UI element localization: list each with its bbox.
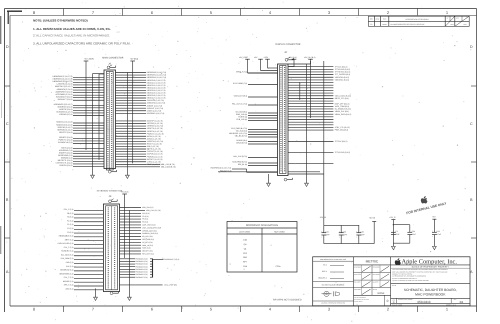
- wire J3 left pin row 9 net SHFT: [65, 238, 104, 241]
- svg-text:F5 (5,6): F5 (5,6): [142, 218, 148, 221]
- wire J4 right pin row 20 net SERRXD: [116, 125, 164, 128]
- svg-text:VIDPWR (2,3,4): VIDPWR (2,3,4): [59, 113, 73, 116]
- svg-text:APPLE SPEC: APPLE SPEC: [354, 301, 362, 303]
- wire J2 right pin row 13 net BRITE_CTL: [288, 97, 349, 100]
- svg-text:QA APPR: QA APPR: [373, 282, 379, 284]
- svg-text:SERCTS (2,4,5,7,8): SERCTS (2,4,5,7,8): [147, 127, 163, 130]
- svg-text:SERCTS (2,4,5): SERCTS (2,4,5): [59, 131, 73, 134]
- connector J2 bottom polarity symbol: [284, 178, 292, 181]
- bus PWDBAD(0-7) vertical: [153, 258, 180, 278]
- svg-text:MODRING (2,4,5,7,8): MODRING (2,4,5,7,8): [147, 112, 165, 115]
- wire J4 right pin row 33 net BATDET: [116, 158, 163, 161]
- capacitor C44: [407, 230, 416, 236]
- svg-text:REL APPR: REL APPR: [354, 282, 360, 284]
- wire J4 left pin row 22 net PWRCYC: [58, 139, 104, 142]
- svg-text:F3 (5,6): F3 (5,6): [67, 231, 74, 234]
- wire J4 left pin row 4 net LANGSEL: [57, 83, 104, 86]
- svg-text:F2 (5,6): F2 (5,6): [67, 227, 74, 230]
- svg-text:NOTE: (UNLESS OTHERWISE NOTED: NOTE: (UNLESS OTHERWISE NOTED): [33, 19, 88, 23]
- svg-text:C: C: [6, 122, 9, 126]
- wire J2 right pin row 8 net LP_CLK: [288, 84, 333, 86]
- svg-text:C32: C32: [325, 230, 328, 233]
- wire J2 right pin row 14 net CNTRST_CTL: [288, 100, 333, 102]
- internal use only stamp: [406, 201, 448, 215]
- wire J4 left pin row 15 net VIDPWR: [59, 113, 104, 116]
- svg-text:BRGHTNSS (5,6): BRGHTNSS (5,6): [60, 272, 74, 275]
- wire J2 left pin row 13 net SOUND: [236, 139, 277, 142]
- svg-text:NOT USED: NOT USED: [274, 230, 285, 233]
- wire J3 right pin row 8 net VCFL_ENSOURTS: [120, 226, 162, 229]
- power rail +5V_BL right above J2: [288, 56, 316, 64]
- svg-text:AND SHALL REMAIN THE PROPERTY: AND SHALL REMAIN THE PROPERTY OF APPLE C…: [392, 271, 447, 273]
- svg-text:KBDROW2 (2,3,4,5,7,8): KBDROW2 (2,3,4,5,7,8): [53, 80, 73, 83]
- svg-text:3. ALL UNPOLARIZED CAPACITORS: 3. ALL UNPOLARIZED CAPACITORS ARE CERAMI…: [33, 41, 131, 45]
- wire J4 left pin row 19 net SERRXD: [57, 128, 104, 131]
- wire J2 right pin row 26 net TFTCLK: [288, 140, 348, 143]
- svg-text:HDDACT (5,8): HDDACT (5,8): [220, 170, 232, 173]
- wire J4 right pin row 21 net SERCTS: [116, 127, 164, 130]
- svg-text:KBDCOL0 (2,3,4,5,7,8): KBDCOL0 (2,3,4,5,7,8): [147, 79, 166, 82]
- svg-text:NUM_LK (5,6): NUM_LK (5,6): [142, 244, 153, 247]
- wire J4 right pin row 27 net RESET: [116, 143, 162, 146]
- riser wire right of J2 partial: [310, 61, 312, 118]
- svg-text:P1: P1: [370, 23, 372, 26]
- power rail +5V_DISP above J2: [239, 56, 278, 73]
- svg-text:CLK (5,6): CLK (5,6): [66, 265, 74, 268]
- svg-text:+5V_DISP: +5V_DISP: [239, 56, 249, 59]
- wire J2 right pin row 16 net VADJ_TRIM: [288, 105, 349, 108]
- wire J2 left pin row 6 net PWR_CLB: [236, 113, 278, 116]
- svg-text:PRD APPR: PRD APPR: [354, 289, 361, 291]
- svg-text:SPK_BL (4): SPK_BL (4): [238, 163, 248, 166]
- svg-text:VIDEOOUT (B,4): VIDEOOUT (B,4): [234, 95, 248, 98]
- wire J2 left pin row 12 net VBL_BA: [235, 135, 278, 138]
- wire J3 right pin row 7 net CAPL_ROW: [120, 224, 157, 227]
- wire J4 left pin row 21 net SERRTS: [59, 136, 104, 139]
- notice of proprietary property block: [391, 265, 470, 283]
- wire J4 left pin row 5 net KBDCOL0: [55, 85, 104, 88]
- power node +5V_M right riser: [369, 217, 376, 244]
- wire cap group top rail: [324, 224, 359, 226]
- wire J4 right pin row 17 net MODRING: [116, 112, 165, 115]
- apple logo on stamp: [421, 196, 428, 203]
- wire J2 right pin row 10 net DISPEN: [288, 89, 333, 91]
- wire J4 right pin row 4 net KBDCOL0: [116, 79, 166, 82]
- wire J4 right pin row 9 net KBDCOL5: [116, 92, 166, 95]
- power rail +5V_MAIN left of J4: [84, 58, 95, 150]
- svg-text:F6 (5,6): F6 (5,6): [142, 221, 148, 224]
- svg-text:VDD_LOGIC (B,4,5): VDD_LOGIC (B,4,5): [335, 94, 352, 97]
- wire J3 right net PWDBAD2: [120, 263, 153, 266]
- svg-text:KBDCOL1 (2,3,4,5,7,8): KBDCOL1 (2,3,4,5,7,8): [147, 81, 166, 84]
- riser wire inside J4 left field: [99, 74, 104, 160]
- svg-text:F1 (5,6): F1 (5,6): [67, 223, 74, 226]
- svg-text:DOL_RAW (5,6): DOL_RAW (5,6): [61, 257, 74, 260]
- svg-text:SLPWRCLK (2,4): SLPWRCLK (2,4): [58, 141, 73, 144]
- svg-text:SNDRTN (2,4,5,7,8): SNDRTN (2,4,5,7,8): [147, 140, 164, 143]
- wire J2 right pin row 9 net FLM_FRAME: [288, 87, 333, 89]
- wire J3 left pin row 16 net CLK: [66, 265, 104, 268]
- svg-text:+5V_M: +5V_M: [369, 217, 376, 220]
- svg-text:CLB (5,6): CLB (5,6): [142, 212, 150, 215]
- wire J4 left pin row 30 net CNTRSTCTL: [56, 162, 104, 165]
- svg-text:DRUN (B,7,8): DRUN (B,7,8): [236, 142, 247, 145]
- notes block: [33, 19, 131, 46]
- svg-text:NMIKBD (2,4): NMIKBD (2,4): [61, 157, 73, 160]
- svg-text:PWRON (2,4,5,7,8): PWRON (2,4,5,7,8): [147, 155, 163, 158]
- svg-text:SPKR_F (7,8): SPKR_F (7,8): [236, 71, 247, 74]
- svg-text:PWR_SEQ (B,4): PWR_SEQ (B,4): [335, 129, 349, 132]
- wire J2 bottom net +5V_MAIN feed: [288, 173, 324, 175]
- wire J3 right net PWDBAD4: [120, 268, 153, 271]
- wire J3 left pin row 4 net FC: [67, 219, 103, 222]
- svg-text:PWDBAD2 (5,6): PWDBAD2 (5,6): [135, 263, 148, 266]
- wire J4 left pin row 14 net SCSIDISK: [56, 111, 104, 114]
- svg-text:+12V: +12V: [264, 56, 269, 59]
- svg-text:VADJ_TRIM (B,4): VADJ_TRIM (B,4): [335, 105, 350, 108]
- svg-text:PWRCYC (2,4,5): PWRCYC (2,4,5): [58, 139, 72, 142]
- drawing interpretation cell: [354, 295, 388, 306]
- svg-text:KBD_SW (5,6): KBD_SW (5,6): [142, 206, 154, 209]
- svg-text:(3) NOT TO REVEAL OR PUBLISH I: (3) NOT TO REVEAL OR PUBLISH IT IN WHOLE…: [392, 280, 429, 282]
- wire J3 bottom right net DOLL_RMP: [120, 284, 178, 287]
- wire J4 right pin row 23 net PWRCYC: [116, 132, 164, 135]
- svg-text:VIDDATA0 (B,4,5): VIDDATA0 (B,4,5): [335, 76, 350, 79]
- svg-text:DELKEY (5,6): DELKEY (5,6): [142, 250, 153, 253]
- svg-text:0: 0: [387, 299, 389, 303]
- wire J4 left pin row 23 net SLPWRCLK: [58, 141, 104, 144]
- wire J2 right pin row 21 net SDA_PANEL: [288, 119, 333, 121]
- svg-text:KBDCOL2 (2,3,4,5,7,8): KBDCOL2 (2,3,4,5,7,8): [147, 84, 166, 87]
- svg-text:LAST USED: LAST USED: [239, 230, 251, 233]
- svg-text:SENSROW (5,6): SENSROW (5,6): [60, 269, 74, 272]
- wire J2 left pin row 3 net VIDEOOUT: [234, 95, 278, 98]
- svg-text:KBDROW2 (2,3,4,5,7,8): KBDROW2 (2,3,4,5,7,8): [147, 76, 167, 79]
- revision history table: [368, 16, 469, 26]
- svg-text:(1) TO MAINTAIN THIS DOCUMENT: (1) TO MAINTAIN THIS DOCUMENT IN CONFIDE…: [392, 276, 426, 278]
- svg-text:PWDBAD3 (5,6): PWDBAD3 (5,6): [135, 265, 148, 268]
- wire J4 right pin row 19 net SERTXD: [116, 122, 164, 125]
- wire J2 left pin row 15 net HAL_CLK: [233, 155, 277, 158]
- svg-text:DOTCLKWR (7,8): DOTCLKWR (7,8): [233, 82, 248, 85]
- wire J2 left pin row 7 net PORTB: [238, 116, 277, 119]
- svg-text:GND (5,6): GND (5,6): [65, 287, 73, 290]
- svg-text:KBDCOL7 (2,3,4,5,7,8): KBDCOL7 (2,3,4,5,7,8): [147, 97, 166, 100]
- svg-text:DETAIL DRAWING: DETAIL DRAWING: [354, 297, 365, 299]
- svg-text:SCHEMATIC, DAUGHTER BOARD,: SCHEMATIC, DAUGHTER BOARD,: [404, 288, 457, 292]
- svg-text:1: 1: [446, 307, 448, 312]
- wire J2 left pin row 16 net RAM_PBW: [232, 161, 277, 164]
- power node +5V_M label: [320, 216, 327, 219]
- svg-text:KBDENABLE (5,6): KBDENABLE (5,6): [59, 235, 74, 238]
- svg-text:NMI (2,4,5,7,8): NMI (2,4,5,7,8): [147, 145, 159, 148]
- svg-text:LANGSEL (2,3,4,5): LANGSEL (2,3,4,5): [57, 83, 73, 86]
- svg-text:VRAM_DATA (B,4,5): VRAM_DATA (B,4,5): [335, 113, 352, 116]
- svg-text:AGNDSND (3,4): AGNDSND (3,4): [59, 149, 73, 152]
- svg-text:SCALE: SCALE: [373, 289, 377, 291]
- svg-text:SNDRTN (3,4,5): SNDRTN (3,4,5): [59, 151, 73, 154]
- wire J2 right pin row 25 net PWR_SEQ: [288, 129, 348, 132]
- wire J4 right lower long net MBL_DATA: [116, 165, 177, 168]
- wire J4 left pin row 3 net KBDROW2: [53, 80, 104, 83]
- signature grid: [354, 265, 391, 295]
- svg-text:ECN: ECN: [456, 17, 459, 19]
- wire J2 left pin row 9 net SYS_PWR: [231, 127, 277, 130]
- wire J3 left pin row 2 net FB: [67, 212, 103, 215]
- wire J2 right pin row 17 net BL_ENABLE: [288, 108, 351, 111]
- wire J3 right net PWDBAD5: [120, 271, 153, 274]
- wire J2 right pin row 19 net VRAM_DATA: [288, 113, 352, 116]
- wire J2 left pin row 2 net DOTCLKWR: [233, 82, 278, 85]
- svg-text:ADBDATA (2,3,4,5,7,8): ADBDATA (2,3,4,5,7,8): [147, 102, 166, 105]
- svg-text:CAPSLED (2,4,5,7,8): CAPSLED (2,4,5,7,8): [147, 99, 164, 102]
- svg-text:2. ALL CAPACITANCE VALUES ARE: 2. ALL CAPACITANCE VALUES ARE IN MICROFA…: [33, 34, 110, 38]
- svg-text:KBDCOL1 (2,3,4,5): KBDCOL1 (2,3,4,5): [56, 121, 72, 124]
- wire J4 right pin row 11 net KBDCOL7: [116, 97, 166, 100]
- wire J2 right pin row 3 net TFTHSYNC: [288, 71, 351, 74]
- riser wire right of J3: [128, 210, 130, 297]
- wire J4 left pin row 8 net ACPOWER: [55, 93, 104, 96]
- svg-text:KB_COL (5,6): KB_COL (5,6): [142, 235, 153, 238]
- drawing title text: [391, 284, 470, 299]
- wire J4 right pin row 18 net MODTIP: [116, 120, 163, 123]
- svg-text:+5V (B,4): +5V (B,4): [130, 58, 139, 61]
- wire J3 right pin row 4 net FD: [120, 215, 149, 218]
- svg-text:+5V (5,6): +5V (5,6): [121, 191, 129, 194]
- wire J3 right pin row 17 net RTN_KEY: [120, 253, 155, 256]
- svg-text:ADBPWRINT (2,4,5): ADBPWRINT (2,4,5): [56, 90, 73, 93]
- wire J4 right pin row 25 net AGND: [116, 137, 162, 140]
- connector J2 title: [276, 43, 301, 54]
- svg-text:PWDBAD6 (5,6): PWDBAD6 (5,6): [135, 273, 148, 276]
- svg-text:MODTIP (2,4,5): MODTIP (2,4,5): [59, 108, 72, 111]
- svg-text:SCSIDISK (2,4,5,7): SCSIDISK (2,4,5,7): [56, 111, 72, 114]
- svg-text:RP1-RP6 NOT ASSIGNED: RP1-RP6 NOT ASSIGNED: [273, 298, 302, 301]
- svg-text:FC (5,6): FC (5,6): [67, 219, 74, 222]
- ground symbol below J3 left: [94, 297, 98, 300]
- wire J2 right pin row 28 net TFTHSYNC: [288, 163, 333, 165]
- connector J3 title: [97, 190, 123, 198]
- svg-text:CHRG (2,4,5,7,8): CHRG (2,4,5,7,8): [147, 160, 161, 163]
- svg-text:ENG APPR: ENG APPR: [354, 274, 361, 276]
- wire J3 left pin row 7 net F3: [67, 231, 103, 234]
- svg-text:NOTICE OF PROPRIETARY PROPERTY: NOTICE OF PROPRIETARY PROPERTY: [412, 265, 450, 268]
- svg-text:C1: C1: [395, 230, 397, 233]
- wire J4 right pin row 35 net TEMP: [116, 163, 161, 166]
- bottom zone numbers 8-1: [33, 307, 448, 312]
- svg-text:+5V_D: +5V_D: [389, 216, 396, 219]
- wire J3 right pin row 14 net NUM_LK: [120, 244, 154, 247]
- svg-text:TFTHSYNC (B,4,5): TFTHSYNC (B,4,5): [335, 71, 351, 74]
- svg-text:MODRING (2,4,5): MODRING (2,4,5): [58, 106, 73, 109]
- wire J4 right pin row 16 net SNDIN: [116, 109, 162, 112]
- svg-text:DISPON (2,4,5,7,8): DISPON (2,4,5,7,8): [147, 153, 163, 156]
- wire J2 right pin row 5 net VIDDATA0: [288, 76, 350, 79]
- svg-text:KBDROW1 (2,3,4,5,7,8): KBDROW1 (2,3,4,5,7,8): [53, 78, 73, 81]
- svg-text:D: D: [470, 45, 473, 49]
- wire J4 left pin row 7 net ADBPWRINT: [56, 90, 104, 93]
- wire J4 right pin row 12 net CAPSLED: [116, 99, 165, 102]
- riser wire +5V_MAIN right of J2: [323, 61, 325, 225]
- svg-text:PWDBAD(0-7) (5,6): PWDBAD(0-7) (5,6): [164, 258, 179, 261]
- left zone divider ticks: [5, 86, 11, 238]
- svg-text:POL_T (5,6): POL_T (5,6): [64, 276, 74, 279]
- top zone divider ticks: [64, 9, 418, 16]
- ground riser left of J4: [93, 74, 105, 175]
- svg-text:CAPL_ROW (5,6): CAPL_ROW (5,6): [142, 224, 156, 227]
- svg-text:+5V_M: +5V_M: [320, 216, 327, 219]
- svg-text:BL_ENABLE (B,4,5): BL_ENABLE (B,4,5): [335, 108, 352, 111]
- wire J4 left pin row 26 net SNDRTN: [59, 151, 104, 154]
- ground symbol below J2 left: [267, 183, 271, 186]
- svg-text:RESETKBD (2,4): RESETKBD (2,4): [58, 154, 73, 157]
- svg-text:ENGINEER: ENGINEER: [354, 266, 361, 268]
- svg-text:+5V_MAIN: +5V_MAIN: [84, 58, 94, 61]
- wire J4 left pin row 10 net SNDINLFT: [58, 98, 104, 101]
- wire J4 right pin row 6 net KBDCOL2: [116, 84, 166, 87]
- svg-text:MOUSE (5,6): MOUSE (5,6): [63, 280, 74, 283]
- power rail +5V right of J4: [130, 58, 139, 164]
- svg-text:MAIN CONNECTOR: MAIN CONNECTOR: [102, 56, 123, 59]
- svg-text:C44: C44: [412, 230, 415, 233]
- svg-text:REFERENCE DESIGNATIONS: REFERENCE DESIGNATIONS: [246, 224, 278, 227]
- wire J2 right pin row 24 net STBY_CTL: [288, 126, 350, 129]
- wire J2 right pin row 27 net TFTVSYNC: [288, 151, 350, 154]
- wire J4 left pin row 6 net ADBDATA: [57, 88, 104, 91]
- svg-text:THIS DOCUMENT AND THE INFORMAT: THIS DOCUMENT AND THE INFORMATION CONTAI…: [392, 269, 448, 271]
- svg-text:KBDCOL3 (2,3,4,5,7,8): KBDCOL3 (2,3,4,5,7,8): [147, 86, 166, 89]
- svg-text:AP_KEY (5,6): AP_KEY (5,6): [142, 241, 153, 244]
- wire J2 right pin row 1 net TFTCLK: [288, 65, 348, 68]
- svg-text:KBDROW0 (2,3,4,5,7,8): KBDROW0 (2,3,4,5,7,8): [53, 75, 73, 78]
- wire J2 left long net HDDACT: [218, 170, 278, 173]
- connector J3 bottom polarity symbol: [110, 292, 118, 295]
- svg-text:VBL_BA (B,7,8): VBL_BA (B,7,8): [235, 135, 248, 138]
- ground riser right of J2: [306, 64, 308, 183]
- svg-text:TFTVSYNC (B,4,5): TFTVSYNC (B,4,5): [335, 68, 351, 71]
- wire J2 left pin row 5 net VID_SLB: [236, 111, 278, 114]
- capacitor C40: [356, 225, 365, 243]
- capacitor C64: [432, 219, 442, 246]
- svg-text:TFTCLK (B,4,5): TFTCLK (B,4,5): [335, 65, 348, 68]
- wire J4 right pin row 28 net NMI: [116, 145, 160, 148]
- svg-text:ADBINT (2,4,5,7,8): ADBINT (2,4,5,7,8): [147, 104, 163, 107]
- svg-text:SNDOUT (2,4,5,7,8): SNDOUT (2,4,5,7,8): [147, 107, 164, 110]
- wire J3 right net PWDBAD7: [120, 276, 153, 279]
- ground symbol below C1: [392, 246, 396, 249]
- svg-text:ADBDATA (2,3,4,5): ADBDATA (2,3,4,5): [57, 88, 73, 91]
- wire J4 left pin row 18 net SERTXD: [58, 126, 104, 129]
- wire J4 left pin row 31 net DISPON: [59, 164, 104, 167]
- title block outline: [313, 257, 470, 306]
- wire J2 right pin row 22 net ID_PANEL: [288, 121, 333, 123]
- wire J4 right pin row 13 net ADBDATA: [116, 102, 166, 105]
- svg-text:ANGLES ±: ANGLES ±: [318, 276, 327, 279]
- svg-text:MFG APPR: MFG APPR: [373, 274, 380, 276]
- wire J4 right pin row 34 net CHRG: [116, 160, 162, 163]
- svg-text:BATDET (2,4,5,7,8): BATDET (2,4,5,7,8): [147, 158, 163, 161]
- wire J2 left pin row 8 net FDB_CLB: [236, 118, 277, 121]
- wire cap group bottom rail: [324, 243, 374, 245]
- svg-text:ACPOWER (2,3,4,5): ACPOWER (2,3,4,5): [55, 93, 72, 96]
- right zone divider ticks: [471, 86, 477, 238]
- svg-text:BY: BY: [447, 17, 449, 19]
- power node +5V_D label: [389, 216, 396, 219]
- wire J4 left pin row 16 net KBDCOL1: [56, 121, 104, 124]
- apple computer inc text: [391, 259, 470, 266]
- svg-text:STBY_CTL (B,4,5): STBY_CTL (B,4,5): [335, 126, 350, 129]
- power node +5V label for C64: [432, 216, 436, 220]
- power rail +12V above J2: [264, 56, 278, 68]
- svg-text:SOUNDOUT (3,4,5): SOUNDOUT (3,4,5): [56, 95, 73, 98]
- svg-text:VCFL_ENSOURTS (5,6): VCFL_ENSOURTS (5,6): [142, 226, 161, 229]
- svg-text:XX ±: XX ±: [323, 264, 327, 267]
- svg-text:REV: REV: [454, 299, 457, 301]
- jog wire J2 right: [299, 82, 301, 100]
- svg-text:POL_F (5,6): POL_F (5,6): [64, 208, 74, 211]
- svg-text:MODTIP (2,4,5,7,8): MODTIP (2,4,5,7,8): [147, 120, 163, 123]
- wire J3 left pin row 13 net SCL_MOD: [61, 253, 104, 256]
- wire J2 right pin row 23 net GND_SENSE: [288, 124, 333, 126]
- wire J4 right pin row 29 net BRITE: [116, 148, 162, 151]
- svg-text:CAS (5,6): CAS (5,6): [66, 261, 74, 264]
- wire J4 right pin row 15 net SNDOUT: [116, 107, 164, 110]
- svg-text:+5V (B,4): +5V (B,4): [289, 56, 297, 59]
- wire J4 right pin row 14 net ADBINT: [116, 104, 163, 107]
- wire J4 right pin row 1 net KBDROW0: [116, 71, 167, 74]
- wire J2 right pin row 18 net VRAM_CLK: [288, 110, 349, 113]
- svg-text:C64: C64: [436, 230, 439, 233]
- wire J2 left pin row 4 net HSL_OUT: [232, 103, 278, 106]
- svg-text:ROWDRV (5,6): ROWDRV (5,6): [61, 250, 73, 253]
- part number cells: [391, 298, 470, 306]
- svg-text:INTERPRETATION PER: INTERPRETATION PER: [354, 299, 369, 301]
- metric cell: [354, 259, 391, 265]
- svg-text:PWDBAD4 (5,6): PWDBAD4 (5,6): [135, 268, 148, 271]
- wire J2 right pin row 15 net DISP_OFF: [288, 102, 350, 105]
- wire J3 right pin row 2 net KBD_CLK: [120, 209, 162, 212]
- wire J4 left pin row 29 net BRITECTL: [58, 159, 104, 162]
- connector J2 body: [278, 64, 289, 176]
- svg-text:SHFT (5,6): SHFT (5,6): [65, 238, 74, 241]
- svg-text:(2) NOT TO REPRODUCE OR COPY I: (2) NOT TO REPRODUCE OR COPY IT: [392, 278, 417, 280]
- svg-text:KBDCOL6 (2,3,4,5,7,8): KBDCOL6 (2,3,4,5,7,8): [147, 94, 166, 97]
- connector J4 title: [102, 56, 123, 65]
- svg-text:KBDROW0 (2,3,4,5,7,8): KBDROW0 (2,3,4,5,7,8): [147, 71, 167, 74]
- wire J4 left pin row 25 net AGNDSND: [59, 149, 104, 152]
- capacitor C33: [339, 225, 348, 243]
- svg-text:SNDIN (2,4,5,7,8): SNDIN (2,4,5,7,8): [147, 109, 162, 112]
- wire J4 left pin row 13 net MODTIP: [59, 108, 104, 111]
- svg-text:METRIC: METRIC: [366, 259, 379, 263]
- svg-text:B: B: [6, 198, 9, 202]
- connector J2 pin-1 polarity symbol: [285, 57, 294, 61]
- svg-text:5: 5: [210, 307, 212, 312]
- svg-text:HSL_OUT (2,4,7,8): HSL_OUT (2,4,7,8): [232, 103, 247, 106]
- right zone letters D C B A: [470, 45, 473, 274]
- svg-text:Apple Computer, Inc.: Apple Computer, Inc.: [402, 259, 458, 266]
- svg-text:D: D: [6, 45, 9, 49]
- wire J3 left pin row 6 net F2: [67, 227, 103, 230]
- wire J4 right pin row 2 net KBDROW1: [116, 74, 167, 77]
- note RP not assigned: [273, 298, 302, 301]
- svg-text:KBD_CLK (5,6,7,8): KBD_CLK (5,6,7,8): [146, 209, 161, 212]
- wire J3 right pin row 12 net SER_KBD: [120, 238, 155, 241]
- svg-text:SERRXD (2,4,5,7,8): SERRXD (2,4,5,7,8): [147, 125, 164, 128]
- ground riser below J3 left: [95, 288, 97, 297]
- svg-text:KBDCOL0 (2,3,4,5,7): KBDCOL0 (2,3,4,5,7): [55, 85, 73, 88]
- svg-text:TFTCLK (B,4,5): TFTCLK (B,4,5): [335, 140, 348, 143]
